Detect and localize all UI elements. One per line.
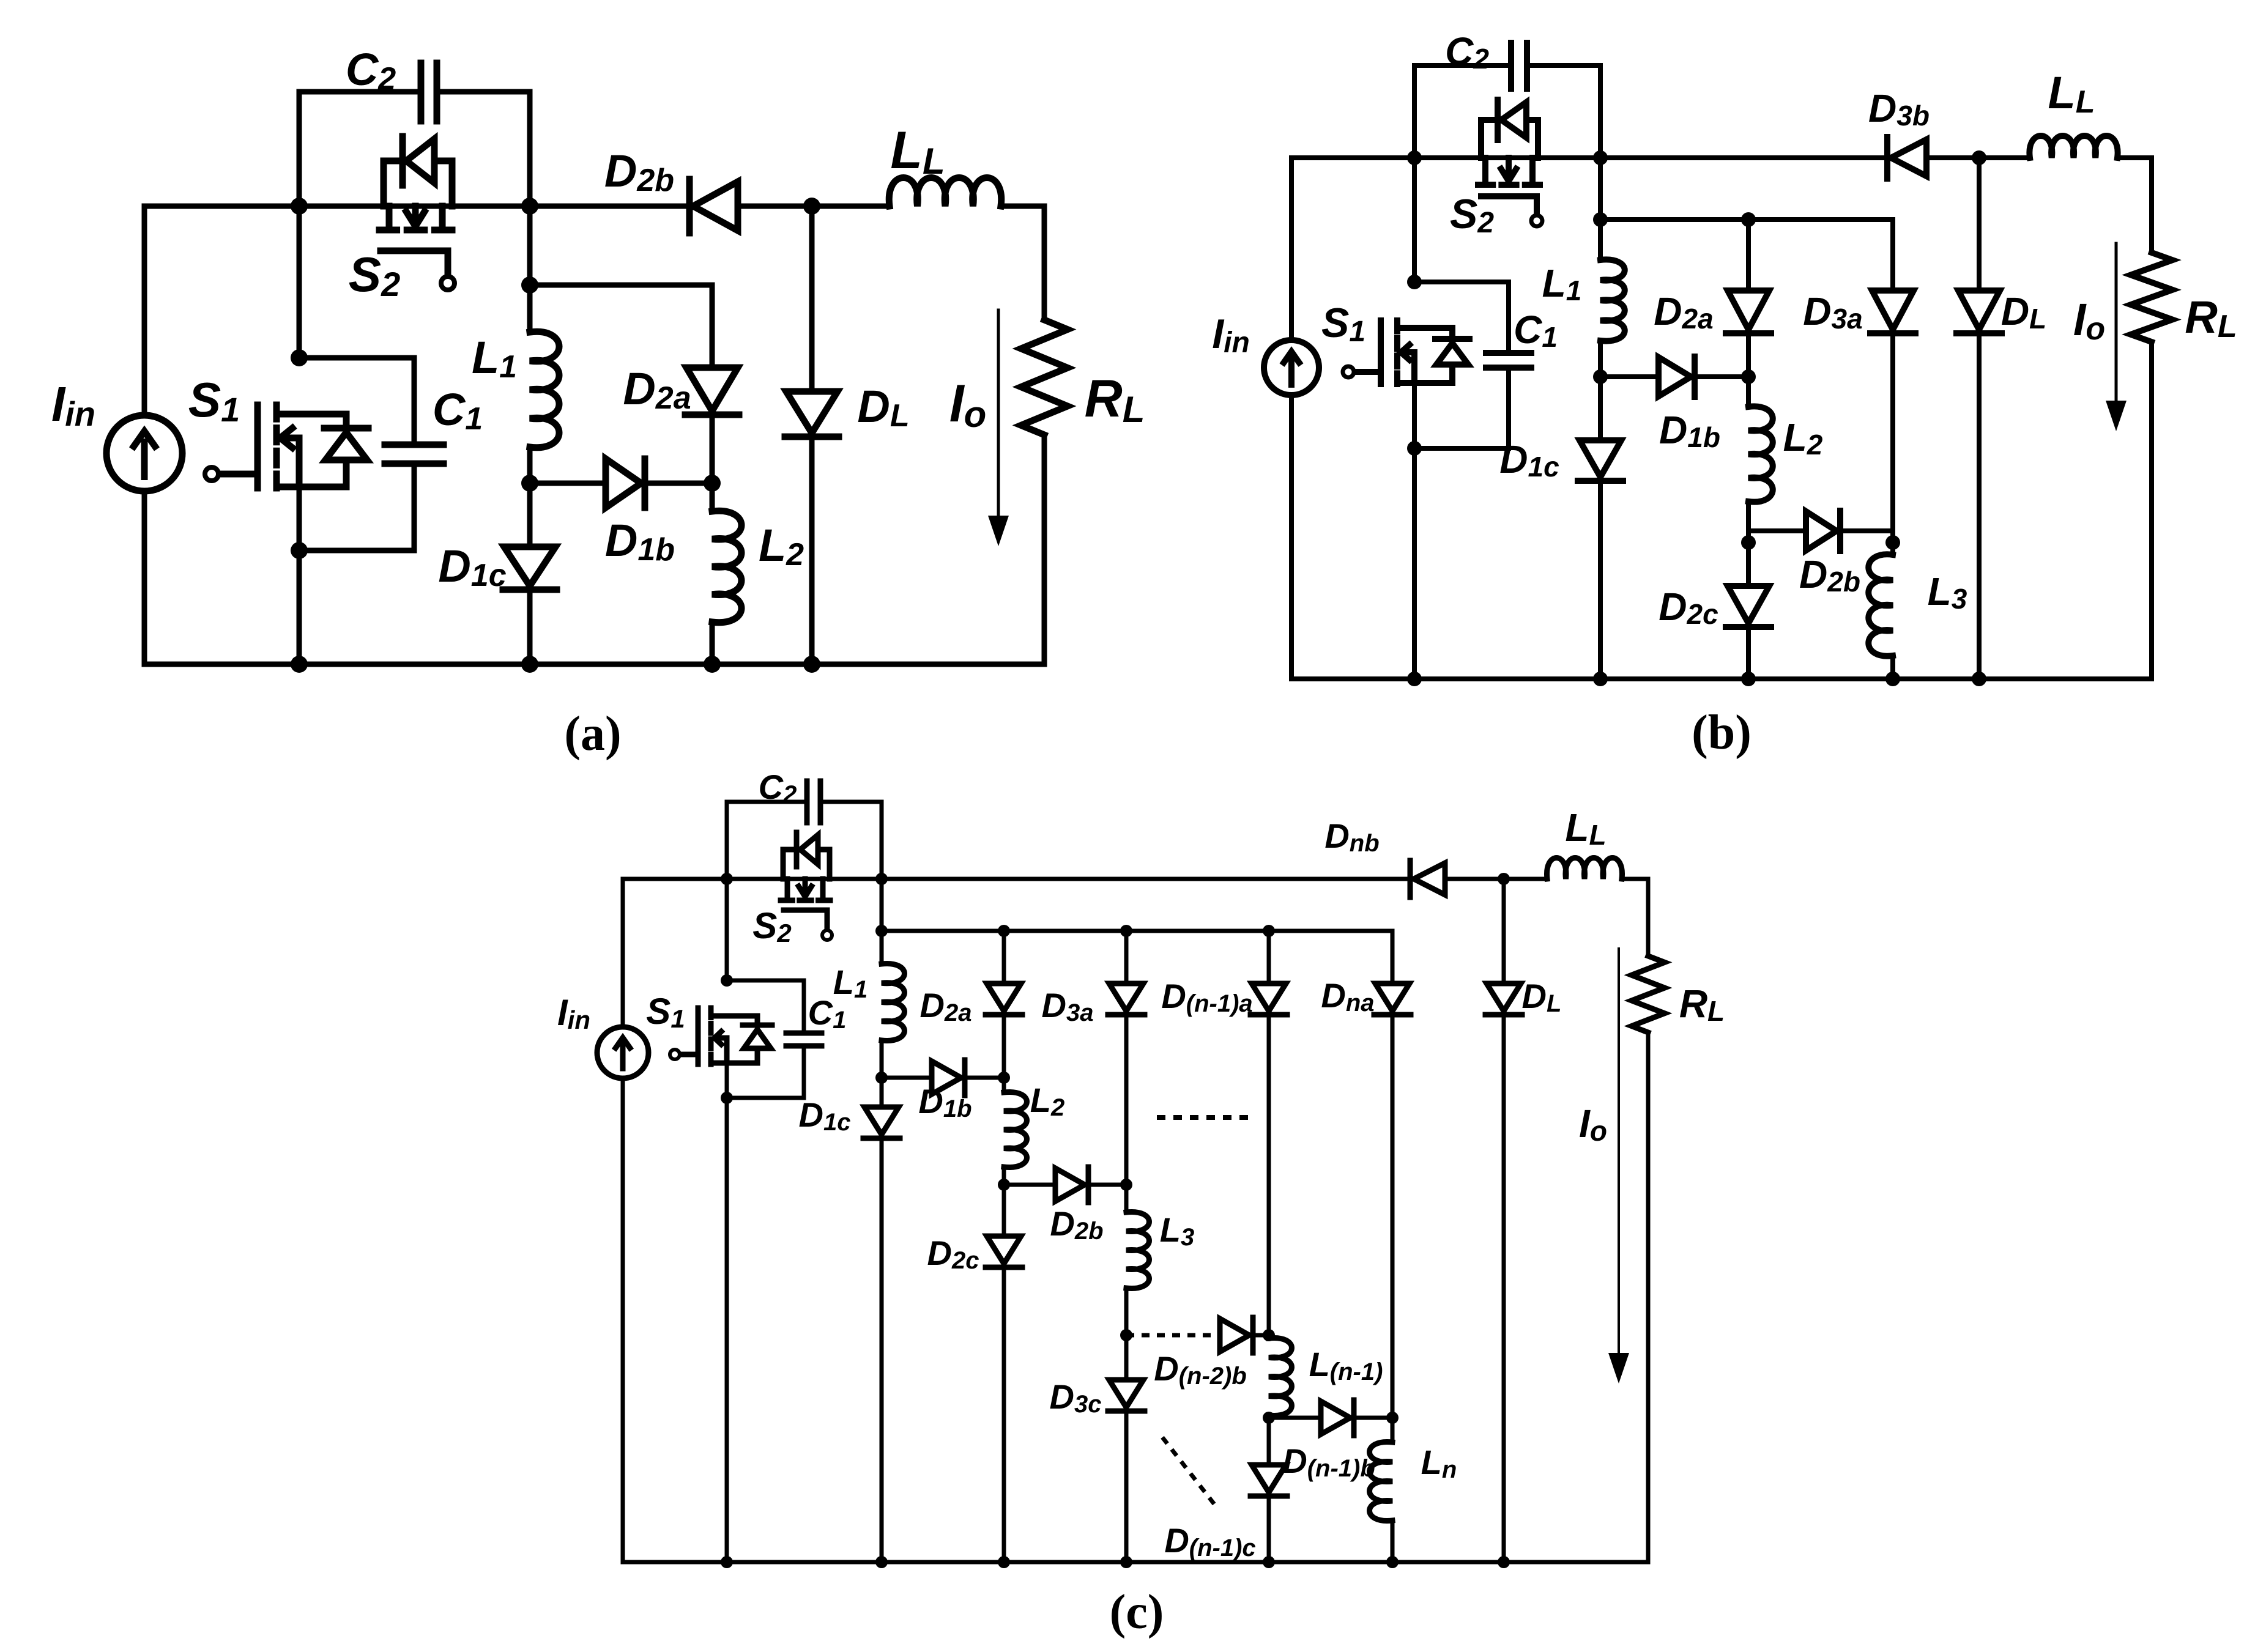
wire D3c anode (c): [1124, 1335, 1129, 1380]
wire left edge bottom (a): [142, 491, 147, 664]
diode D1c (b): [1578, 440, 1623, 481]
wire C1 bottom (c): [727, 1046, 804, 1098]
wire D2c to bottom rail (c): [1002, 1270, 1006, 1562]
wire S1 node to bottom rail (a): [297, 550, 302, 664]
switch S2 with body diode (a): [379, 136, 452, 276]
wire L3 to bottom rail (b): [1890, 656, 1895, 679]
wire bottom rail (b): [1291, 676, 2152, 681]
node L1-D1b-D1c (a): [521, 475, 538, 492]
diode D3a (c): [1108, 983, 1145, 1015]
inductor L2 (c): [1004, 1092, 1027, 1167]
wire L3 top stub (c): [1124, 1185, 1129, 1212]
wire L1 node to coil (a): [527, 285, 533, 332]
wire D(n-1)a top (c): [1267, 931, 1271, 983]
wire D3c to bottom rail (c): [1124, 1413, 1129, 1562]
switch S1 with body diode (a): [217, 405, 368, 488]
wire C1 top (a): [299, 358, 414, 445]
wire D2a to D1b node (c): [1002, 1017, 1006, 1078]
inductor L2 (b): [1748, 406, 1773, 502]
gate terminal circle S2 (c): [822, 930, 832, 940]
node S1 drain (b): [1407, 275, 1422, 289]
diode D1c (a): [503, 547, 557, 590]
wire L1 column top (b): [1598, 158, 1603, 220]
node L1-D1b-D1c (c): [875, 1072, 888, 1084]
node S1 source / C1 (a): [291, 542, 308, 559]
wire S1 source to node (a): [297, 487, 302, 550]
switch S1 with body diode (c): [680, 1008, 772, 1064]
wire D1b anode (a): [530, 481, 606, 486]
wire Dna to D(n-1)b node (c): [1391, 1017, 1395, 1418]
wire D1b cathode (c): [965, 1076, 1004, 1080]
wire DL node to LL (a): [812, 204, 890, 209]
svg-text:(a): (a): [564, 707, 621, 761]
dashed continuation between D3a and D(n-1)a columns (c): [1157, 1115, 1251, 1120]
wire Dna column top (c): [1391, 931, 1395, 983]
node bottom D3c (c): [1120, 1556, 1132, 1568]
wire DL column top (c): [1502, 879, 1506, 983]
diode D2a (c): [986, 983, 1022, 1015]
node bottom D(n-1)c (c): [1263, 1556, 1275, 1568]
wire C2 left leg (c): [727, 802, 807, 879]
wire left edge bottom (b): [1289, 394, 1294, 679]
inductor LL (c): [1547, 858, 1622, 880]
wire S1 source to node (b): [1412, 383, 1417, 448]
node L2-D2b-D2c (c): [998, 1179, 1010, 1191]
wire D2c anode (b): [1746, 531, 1751, 586]
capacitor C1 (c): [786, 1033, 822, 1046]
wire D2a to D1b node (b): [1746, 333, 1751, 377]
current source Iin (b): [1264, 340, 1319, 395]
dashed diagonal continuation (c): [1162, 1437, 1216, 1506]
output current arrow Io (b): [2115, 243, 2118, 404]
node D2b-D3a-L3 (c): [1120, 1179, 1132, 1191]
wire L2 to D2b node (c): [1002, 1167, 1006, 1185]
current source Iin (a): [106, 415, 182, 491]
wire L2 to D2b node (b): [1746, 502, 1751, 531]
diode D2b (b): [1806, 511, 1840, 551]
node D(n-2)b-D(n-1)a-L(n-1) (c): [1263, 1329, 1275, 1341]
node rail-L1col (b): [1593, 150, 1608, 165]
wire L2 top stub (c): [1002, 1078, 1006, 1092]
diode D3a (b): [1870, 291, 1915, 333]
wire D1b cathode (a): [645, 481, 712, 486]
diode DL (a): [785, 391, 839, 437]
diode D2b (a): [689, 179, 738, 233]
wire D(n-1)c anode (c): [1267, 1418, 1271, 1465]
capacitor C2 (b): [1511, 43, 1527, 89]
wire L2 top stub (a): [710, 483, 715, 511]
node bus-D3a (c): [1120, 925, 1132, 937]
node rail-S1col (b): [1407, 150, 1422, 165]
switch S2 with body diode (b): [1478, 100, 1540, 215]
node D(n-1)b-Dna-Ln (c): [1386, 1412, 1399, 1424]
diode D2a (b): [1726, 291, 1771, 333]
node bus-D2a (c): [998, 925, 1010, 937]
node S1 source / C1 (c): [721, 1092, 733, 1104]
wire D(n-1)c to bottom rail (c): [1267, 1498, 1271, 1562]
wire D(n-1)b cathode (c): [1354, 1416, 1392, 1420]
node bus-L1 (c): [875, 925, 888, 937]
node D2a top (b): [1741, 212, 1756, 227]
gate terminal circle S1 (b): [1343, 366, 1354, 377]
wire bottom rail (c): [623, 1560, 1648, 1565]
wire D1b anode (c): [882, 1076, 932, 1080]
wire S1 drain column (c): [725, 879, 729, 980]
gate terminal circle S1 (c): [670, 1050, 680, 1059]
wire D1c to bottom rail (a): [527, 591, 533, 664]
wire top-left rail (a): [144, 204, 299, 209]
output current arrow Io (a): [997, 310, 1000, 519]
wire L1 coil to D1b node (b): [1598, 341, 1603, 377]
wire top rail D3b-DL (b): [1928, 155, 2030, 160]
diode D(n-2)b (c): [1220, 1317, 1253, 1353]
wire D3a top (c): [1124, 931, 1129, 983]
wire D2a top (c): [1002, 931, 1006, 983]
wire top rail DL-LL (c): [1504, 877, 1547, 881]
wire bottom rail (a): [144, 662, 1044, 667]
wire DL column top (a): [809, 206, 815, 391]
wire top rail right corner (b): [2117, 155, 2152, 160]
diode D(n-1)a (c): [1250, 983, 1287, 1015]
node L3-D(n-2)b-D3c (c): [1120, 1329, 1132, 1341]
wire D(n-1)b anode (c): [1269, 1416, 1321, 1420]
wire DL column top (b): [1977, 158, 1982, 291]
wire D3a to D2b node (c): [1124, 1017, 1129, 1185]
diode Dnb (c): [1410, 861, 1445, 897]
wire D2b anode (b): [1748, 528, 1806, 533]
inductor LL (a): [889, 178, 1001, 207]
capacitor C2 (c): [807, 781, 820, 823]
wire L2 top stub (b): [1746, 377, 1751, 407]
wire right edge bottom (c): [1646, 1032, 1651, 1562]
node L(n-1)-D(n-1)b-D(n-1)c (c): [1263, 1412, 1275, 1424]
wire top rail Dnb-DL (c): [1446, 877, 1504, 881]
inductor L2 (a): [712, 511, 741, 622]
capacitor C1 (a): [385, 445, 444, 464]
node L1-D1b-D1c (b): [1593, 369, 1608, 384]
node bottom Ln (c): [1386, 1556, 1399, 1568]
diode D(n-1)c (c): [1250, 1465, 1287, 1496]
dashed wire to D(n-2)b (c): [1126, 1333, 1211, 1338]
node rail-DLcol (c): [1498, 873, 1510, 885]
diode D1b (a): [606, 459, 645, 508]
node S1 source / C1 (b): [1407, 441, 1422, 456]
node bottom D2c (c): [998, 1556, 1010, 1568]
inductor L1 (b): [1600, 259, 1625, 341]
wire L1 coil to D1b node (a): [527, 447, 533, 483]
capacitor C2 (a): [421, 63, 437, 121]
wire D2a to D1b node (a): [710, 415, 715, 483]
wire right edge bottom (b): [2149, 342, 2154, 679]
wire L3 top stub (b): [1890, 531, 1895, 555]
wire second row bus (b): [1600, 217, 1893, 222]
inductor L3 (c): [1126, 1212, 1150, 1288]
wire S1 source to node (c): [725, 1063, 729, 1098]
wire D2b cathode (c): [1088, 1183, 1126, 1187]
node rail-L1col (c): [875, 873, 888, 885]
wire D1b cathode (b): [1695, 374, 1748, 379]
diode D2c (b): [1726, 586, 1771, 627]
node rail-DLcol (b): [1972, 150, 1986, 165]
node D1b-D2a-L2 (c): [998, 1072, 1010, 1084]
wire right edge top (b): [2149, 158, 2154, 253]
diode D3c (c): [1108, 1380, 1145, 1411]
wire L1 column top (a): [527, 206, 533, 285]
wire D2c to bottom rail (b): [1746, 628, 1751, 679]
wire C2 right leg (b): [1527, 65, 1600, 158]
node bottom L3 (b): [1885, 672, 1900, 686]
node L2-D2b-D2c (b): [1741, 535, 1756, 550]
node rail-S1col (c): [721, 873, 733, 885]
diode D2c (c): [986, 1236, 1022, 1267]
wire C1 bottom (b): [1414, 368, 1509, 448]
node bottom D1c (a): [521, 656, 538, 673]
node D1b-D2a-L2 (a): [704, 475, 721, 492]
diode D2a (a): [685, 368, 739, 415]
diode D1c (c): [863, 1107, 900, 1138]
wire L1 column top (c): [880, 879, 884, 931]
wire LL to right corner (a): [1001, 204, 1044, 209]
node bottom S1col (b): [1407, 672, 1422, 686]
node rail-S1col (a): [291, 198, 308, 215]
node bottom DL (a): [803, 656, 820, 673]
wire Ln to bottom rail (c): [1391, 1521, 1395, 1562]
node rail-DLcol (a): [803, 198, 820, 215]
diode D3b (b): [1887, 137, 1926, 179]
gate terminal circle S2 (a): [441, 276, 455, 290]
wire S1 node to bottom rail (b): [1412, 448, 1417, 679]
wire right edge top (a): [1042, 206, 1047, 320]
wire left edge top (c): [621, 879, 625, 1027]
wire S1 drain column (b): [1412, 158, 1417, 282]
switch S1 with body diode (b): [1354, 320, 1469, 384]
wire C1 bottom (a): [299, 464, 414, 550]
gate terminal circle S1 (a): [205, 467, 218, 481]
output current arrow Io (c): [1618, 949, 1620, 1357]
wire right edge top (c): [1646, 879, 1651, 956]
inductor L3 (b): [1868, 554, 1893, 656]
diode D1b (c): [932, 1060, 965, 1095]
wire left edge top (a): [142, 206, 147, 415]
node bottom D1c (b): [1593, 672, 1608, 686]
wire L2 to bottom rail (a): [710, 622, 715, 664]
resistor RL (a): [1021, 320, 1068, 435]
inductor Ln (c): [1370, 1442, 1393, 1521]
node bottom D2c (b): [1741, 672, 1756, 686]
svg-text:(b): (b): [1692, 706, 1752, 760]
wire S1 node to bottom rail (c): [725, 1098, 729, 1562]
wire L(n-1) top stub (c): [1267, 1335, 1271, 1338]
wire top rail S2 span (a): [299, 204, 530, 209]
wire DL to bottom rail (b): [1977, 333, 1982, 679]
inductor L(n-1) (c): [1269, 1338, 1292, 1415]
wire C2 left leg (a): [299, 92, 420, 206]
wire D2b anode (c): [1004, 1183, 1055, 1187]
node D1b-D2a-L2 (b): [1741, 369, 1756, 384]
wire L3 to dashed node (c): [1124, 1288, 1129, 1335]
node L1 top (b): [1593, 212, 1608, 227]
wire Ln top stub (c): [1391, 1418, 1395, 1442]
diode D(n-1)b (c): [1321, 1400, 1354, 1435]
wire C1 top (b): [1414, 282, 1509, 353]
wire D2b to DL node (a): [740, 204, 812, 209]
wire node to D2a top (a): [530, 285, 712, 368]
node bottom D1c (c): [875, 1556, 888, 1568]
wire C1 top (c): [727, 980, 804, 1033]
wire L1 node to coil (b): [1598, 220, 1603, 260]
wire D(n-1)a to D(n-2)b node (c): [1267, 1017, 1271, 1335]
wire C2 right leg (c): [820, 802, 882, 879]
resistor RL (b): [2131, 253, 2172, 342]
current source Iin (c): [597, 1027, 648, 1078]
wire top rail left (c): [623, 877, 1409, 881]
node L1 top / D2a (a): [521, 276, 538, 294]
wire L(n-1) to D(n-1)b node (c): [1267, 1415, 1271, 1418]
wire D1c to bottom rail (b): [1598, 481, 1603, 679]
node bottom S1col (c): [721, 1556, 733, 1568]
wire D3a to D2b node (b): [1890, 333, 1895, 531]
diode DL (c): [1485, 983, 1522, 1015]
wire top rail to D2b (a): [530, 204, 687, 209]
node bottom L2 (a): [704, 656, 721, 673]
wire left edge bottom (c): [621, 1078, 625, 1562]
inductor L1 (a): [530, 332, 559, 448]
wire D2a top (b): [1746, 220, 1751, 291]
wire D1c anode (b): [1598, 377, 1603, 440]
diode DL (b): [1956, 291, 2002, 333]
wire D1c to bottom rail (c): [880, 1141, 884, 1562]
node S1 drain (c): [721, 974, 733, 987]
node bus-D(n-1)a (c): [1263, 925, 1275, 937]
wire C2 right leg (a): [439, 92, 530, 206]
resistor RL (c): [1632, 956, 1665, 1032]
wire L1 coil to D1b node (c): [880, 1040, 884, 1078]
wire second row bus (c): [882, 929, 1392, 933]
wire top rail right corner (c): [1622, 877, 1648, 881]
node D2b-D3a-L3 (b): [1885, 535, 1900, 550]
node bottom DL (c): [1498, 1556, 1510, 1568]
wire D2c anode (c): [1002, 1185, 1006, 1236]
wire DL to bottom rail (a): [809, 433, 815, 664]
wire S1 drain column (a): [297, 206, 302, 358]
wire D1b anode (b): [1600, 374, 1659, 379]
node rail-L1col (a): [521, 198, 538, 215]
inductor LL (b): [2029, 136, 2117, 158]
diode Dna (c): [1374, 983, 1411, 1015]
wire D2b cathode (b): [1842, 528, 1893, 533]
node bottom S1col (a): [291, 656, 308, 673]
capacitor C1 (b): [1486, 353, 1531, 368]
wire D1c anode (c): [880, 1078, 884, 1107]
wire C2 left leg (b): [1414, 65, 1511, 158]
wire DL to bottom rail (c): [1502, 1017, 1506, 1562]
wire top rail left (b): [1291, 155, 1886, 160]
diode D1b (b): [1659, 357, 1695, 397]
svg-text:(c): (c): [1110, 1585, 1164, 1639]
node S1 drain (a): [291, 349, 308, 366]
wire L1 node to coil (c): [880, 931, 884, 964]
wire D(n-2)b cathode (c): [1253, 1333, 1269, 1338]
switch S2 with body diode (c): [781, 832, 830, 930]
gate terminal circle S2 (b): [1531, 215, 1542, 226]
inductor L1 (c): [882, 963, 905, 1040]
wire D3a top (b): [1890, 220, 1895, 291]
wire left edge top (b): [1289, 158, 1294, 341]
wire right edge bottom (a): [1042, 435, 1047, 664]
node bottom DL (b): [1972, 672, 1986, 686]
wire D1c anode (a): [527, 483, 533, 547]
diode D2b (c): [1055, 1167, 1088, 1202]
